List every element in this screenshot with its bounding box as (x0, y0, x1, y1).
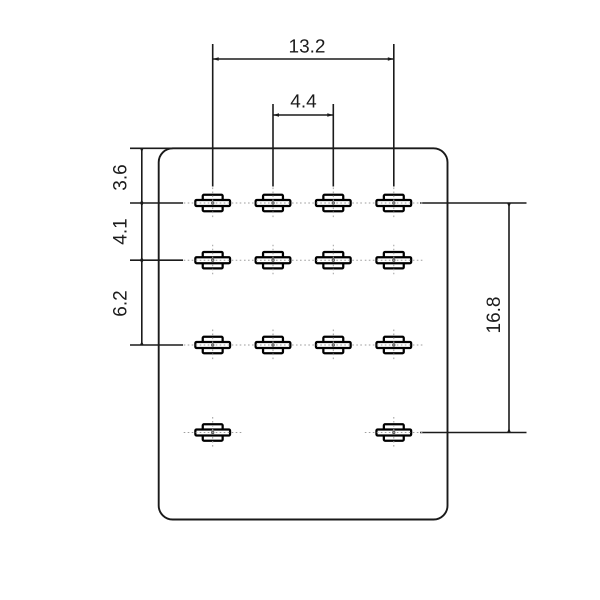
svg-text:6.2: 6.2 (111, 290, 132, 316)
svg-text:16.8: 16.8 (484, 297, 505, 334)
svg-text:4.1: 4.1 (111, 218, 132, 244)
svg-text:4.4: 4.4 (290, 91, 317, 112)
svg-text:3.6: 3.6 (111, 164, 132, 190)
svg-text:13.2: 13.2 (289, 36, 326, 57)
